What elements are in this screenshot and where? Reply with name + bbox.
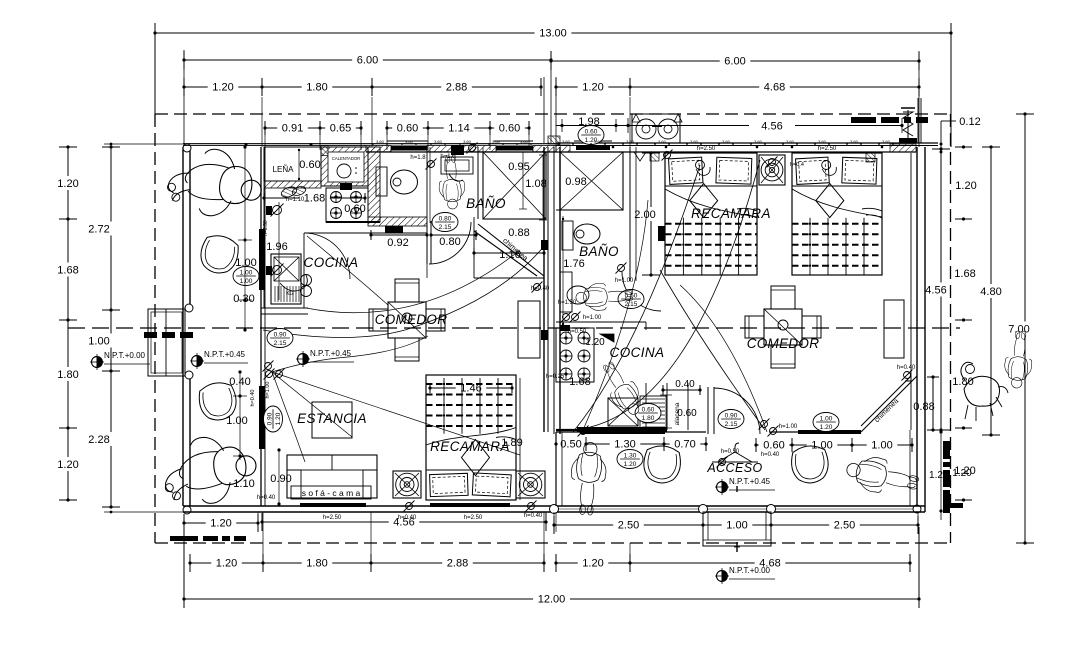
svg-text:RECAMARA: RECAMARA xyxy=(691,206,771,221)
svg-text:0.80: 0.80 xyxy=(439,216,452,223)
extension lines bottom xyxy=(190,512,630,570)
svg-text:3.60: 3.60 xyxy=(658,139,667,144)
dim 1.89 bed xyxy=(501,378,522,500)
svg-text:1.08: 1.08 xyxy=(525,178,546,190)
bed right unit 2 xyxy=(792,153,882,275)
dim row 1.20 1.80 2.88 top xyxy=(182,78,542,96)
svg-text:3.60: 3.60 xyxy=(722,139,731,144)
leader curve right unit 2 xyxy=(660,270,765,430)
bottom wall right porch xyxy=(554,506,925,512)
tocador right unit xyxy=(884,300,904,358)
svg-text:1.00: 1.00 xyxy=(226,415,247,427)
svg-text:1.20: 1.20 xyxy=(212,82,233,94)
leader curve right unit 4 xyxy=(583,200,648,430)
kitchen sink left unit xyxy=(262,185,366,304)
svg-text:0.60: 0.60 xyxy=(642,407,655,414)
svg-text:1.80: 1.80 xyxy=(57,369,78,381)
svg-text:3.60: 3.60 xyxy=(850,139,859,144)
porch side walls xyxy=(556,430,910,506)
svg-text:CALENTADOR: CALENTADOR xyxy=(332,156,360,161)
column left mid2 xyxy=(185,371,193,379)
label sofa-cama xyxy=(291,486,371,499)
svg-text:0.60: 0.60 xyxy=(499,123,520,135)
column left mid1 xyxy=(185,304,193,312)
outlet symbols xyxy=(263,143,913,512)
svg-text:6.00: 6.00 xyxy=(357,55,378,67)
wall toilet-sink xyxy=(427,147,430,223)
window band top left unit 1 xyxy=(387,141,428,151)
svg-text:2.50: 2.50 xyxy=(618,520,639,532)
column bottom-left xyxy=(183,506,191,514)
counter front band xyxy=(278,202,280,300)
svg-text:LEÑA: LEÑA xyxy=(273,165,295,174)
svg-text:1.20: 1.20 xyxy=(57,178,78,190)
npt +0.00 bottom xyxy=(715,566,775,584)
washing machine xyxy=(632,114,682,143)
counter right kitchen xyxy=(556,427,667,432)
toilet right unit xyxy=(562,162,804,250)
svg-text:3.60: 3.60 xyxy=(520,139,529,144)
party wall top ticks xyxy=(544,51,556,143)
door arc bath right xyxy=(622,226,665,311)
sofa-cama body xyxy=(287,455,377,498)
svg-text:1.14: 1.14 xyxy=(448,123,469,135)
dim 0.40 right kitchen xyxy=(661,385,701,395)
porch top wall left xyxy=(556,430,706,434)
entry step dashes xyxy=(144,332,193,338)
svg-text:3.60: 3.60 xyxy=(754,139,763,144)
svg-text:1.00: 1.00 xyxy=(811,440,832,452)
svg-text:2.15: 2.15 xyxy=(625,301,638,308)
svg-text:3.60: 3.60 xyxy=(690,139,699,144)
door entry right unit xyxy=(708,387,760,434)
svg-text:0.92: 0.92 xyxy=(387,237,408,249)
entry steps left xyxy=(148,309,185,376)
dim row 1.20 4.68 top xyxy=(554,78,920,96)
black dash band top right xyxy=(851,117,928,123)
svg-text:1.96: 1.96 xyxy=(266,241,287,253)
svg-text:1.20: 1.20 xyxy=(582,558,603,570)
svg-text:h=1.00: h=1.00 xyxy=(265,382,271,399)
label COCINA left xyxy=(304,255,359,270)
wall left exterior xyxy=(183,147,190,506)
dining table right unit xyxy=(745,286,821,368)
svg-text:h=0.50: h=0.50 xyxy=(721,449,740,455)
svg-text:COCINA: COCINA xyxy=(610,345,665,360)
svg-text:1.20: 1.20 xyxy=(210,518,231,530)
bath wall right unit xyxy=(630,147,636,281)
dim 0.92 bath door xyxy=(369,145,464,240)
svg-text:N.P.T.+0.45: N.P.T.+0.45 xyxy=(204,350,246,359)
svg-text:h=1.00: h=1.00 xyxy=(615,278,634,284)
svg-text:2.50: 2.50 xyxy=(834,520,855,532)
wall lena box xyxy=(263,147,321,236)
column top-left xyxy=(183,144,191,152)
wall top right unit xyxy=(556,141,938,152)
dining table left unit xyxy=(369,279,445,361)
dim patio vertical lower xyxy=(233,370,281,505)
dim 0.95 shower left xyxy=(519,152,527,209)
svg-text:h=2.50: h=2.50 xyxy=(697,146,716,152)
svg-text:12.00: 12.00 xyxy=(538,594,566,606)
section marker bottom right xyxy=(939,427,963,520)
svg-text:h=0.40: h=0.40 xyxy=(897,365,916,371)
svg-text:4.80: 4.80 xyxy=(980,286,1001,298)
svg-text:1.80: 1.80 xyxy=(642,415,655,422)
calentador nook xyxy=(321,147,368,186)
svg-text:h=1.00: h=1.00 xyxy=(583,315,602,321)
leader curve left unit 2 xyxy=(272,372,520,462)
svg-text:1.20: 1.20 xyxy=(820,424,833,431)
service yard line xyxy=(556,116,904,133)
estancia table xyxy=(312,402,352,438)
dim 6.00 top right xyxy=(549,51,920,147)
dim 1.46 bed xyxy=(428,383,513,395)
svg-text:0.60: 0.60 xyxy=(585,129,598,136)
svg-text:0.88: 0.88 xyxy=(508,227,529,239)
dim 1.76 right bath xyxy=(562,152,875,325)
svg-text:3.60: 3.60 xyxy=(562,139,571,144)
svg-text:1.00: 1.00 xyxy=(240,270,253,277)
svg-text:N.P.T.+0.45: N.P.T.+0.45 xyxy=(310,349,352,358)
svg-text:h=0.40: h=0.40 xyxy=(398,515,417,521)
porch top wall right xyxy=(770,430,861,434)
dim overall 13.00 top xyxy=(153,23,952,147)
door arc bath left xyxy=(429,222,471,264)
party wall xyxy=(544,147,560,434)
svg-text:13.00: 13.00 xyxy=(539,28,567,40)
dim right 4.80 xyxy=(980,145,1001,436)
dim bottom 1.20 left xyxy=(182,514,259,532)
property line dashed top xyxy=(155,113,951,115)
svg-text:0.90: 0.90 xyxy=(274,332,287,339)
svg-text:1.80: 1.80 xyxy=(306,82,327,94)
nightstand with fan xyxy=(759,155,785,185)
svg-text:h=2.50: h=2.50 xyxy=(818,146,837,152)
svg-text:2.72: 2.72 xyxy=(88,224,109,236)
svg-text:3.60: 3.60 xyxy=(786,139,795,144)
svg-text:0.95: 0.95 xyxy=(508,161,529,173)
svg-text:1.46: 1.46 xyxy=(460,383,481,395)
grill right kitchen xyxy=(640,396,667,428)
svg-text:3.60: 3.60 xyxy=(594,139,603,144)
stove right unit xyxy=(556,325,614,382)
shower right unit xyxy=(556,152,623,210)
svg-text:1.20: 1.20 xyxy=(275,412,282,425)
fan box left 1 xyxy=(393,471,421,498)
svg-text:h=0.40: h=0.40 xyxy=(257,495,276,501)
dim porch 0.60 1.00 1.00 xyxy=(754,438,913,452)
person patio bottom xyxy=(159,431,260,510)
dim left inner 2.72 1.00 2.28 xyxy=(88,145,120,508)
svg-text:1.20: 1.20 xyxy=(955,180,976,192)
interior small dims xyxy=(226,159,697,490)
svg-text:2.00: 2.00 xyxy=(634,209,655,221)
dim porch 0.50 1.30 0.70 xyxy=(554,437,707,451)
svg-text:1.76: 1.76 xyxy=(563,258,584,270)
porch dim ext xyxy=(554,512,918,532)
svg-text:h=0.40: h=0.40 xyxy=(524,513,543,519)
svg-text:0.90: 0.90 xyxy=(270,473,291,485)
chimenea left unit xyxy=(427,217,544,278)
svg-text:3.60: 3.60 xyxy=(405,139,414,144)
dim right 1.20 1.68 1.80 1.20 xyxy=(952,145,976,501)
alacena wall xyxy=(646,383,688,430)
svg-text:1.20: 1.20 xyxy=(582,82,603,94)
chimenea corner xyxy=(861,376,917,432)
dim 0.80 bath door xyxy=(429,230,477,240)
svg-text:1.30: 1.30 xyxy=(614,439,635,451)
wall top left unit cap xyxy=(366,144,556,152)
leader curve left unit 4 xyxy=(306,250,520,313)
svg-text:0.50: 0.50 xyxy=(560,439,581,451)
dim 0.60 right kitchen xyxy=(660,395,672,428)
svg-text:2.15: 2.15 xyxy=(439,224,452,231)
svg-text:2.88: 2.88 xyxy=(446,82,467,94)
column bottom right wall xyxy=(913,98,921,513)
svg-text:N.P.T.+0.45: N.P.T.+0.45 xyxy=(729,477,771,486)
door arc patio kitchen xyxy=(304,233,350,279)
svg-text:1.68: 1.68 xyxy=(304,193,325,205)
svg-text:3.60: 3.60 xyxy=(492,139,501,144)
svg-text:h=1.8: h=1.8 xyxy=(410,155,426,161)
dim 2.00 recamara xyxy=(634,151,660,276)
dim 6.00 top left xyxy=(182,50,552,147)
svg-text:BAÑO: BAÑO xyxy=(579,244,619,259)
property line dashed bottom xyxy=(155,542,951,544)
svg-text:2.15: 2.15 xyxy=(725,421,738,428)
svg-text:4.56: 4.56 xyxy=(761,121,782,133)
svg-text:h=0.25: h=0.25 xyxy=(546,374,565,380)
svg-text:COMEDOR: COMEDOR xyxy=(375,312,448,327)
svg-text:0.60: 0.60 xyxy=(677,408,697,419)
svg-text:h=0.50: h=0.50 xyxy=(568,329,587,335)
hatch mark party wall top xyxy=(548,136,560,144)
dim bottom 2.50 1.00 2.50 xyxy=(552,516,919,534)
leader curve left unit 3 xyxy=(307,236,388,305)
bottom wall left unit xyxy=(183,506,556,512)
svg-text:1.30: 1.30 xyxy=(624,453,637,460)
svg-text:3.60: 3.60 xyxy=(376,139,385,144)
dim 1.16 below bath xyxy=(472,248,545,258)
svg-text:0.12: 0.12 xyxy=(959,116,980,128)
dim bottom 1.20 4.68 right xyxy=(554,554,911,572)
svg-text:1.68: 1.68 xyxy=(954,268,975,280)
person bath right sink xyxy=(575,282,633,311)
leader curve right unit 3 xyxy=(680,285,767,432)
label RECAMARA left xyxy=(430,439,510,454)
dog outside right xyxy=(961,362,1008,421)
svg-text:h=1.50: h=1.50 xyxy=(558,300,577,306)
leader curve right unit big xyxy=(573,160,760,430)
equipal chair 1 xyxy=(197,232,242,277)
svg-text:4.68: 4.68 xyxy=(764,82,785,94)
dim bottom 12.00 xyxy=(182,523,920,608)
npt +0.45 estancia xyxy=(296,349,354,367)
svg-text:0.65: 0.65 xyxy=(330,123,351,135)
sliding door patio 1 xyxy=(259,229,265,290)
hanger acceso xyxy=(712,443,758,462)
leader curve left unit 5 xyxy=(272,336,428,372)
wall hatch below lena xyxy=(264,181,321,188)
label ESTANCIA xyxy=(297,411,367,426)
dim row 0.91 0.65 top xyxy=(263,121,362,135)
dim right 4.56 vertical xyxy=(925,147,950,431)
svg-text:1.68: 1.68 xyxy=(57,265,78,277)
svg-text:6.00: 6.00 xyxy=(724,56,745,68)
wall right exterior xyxy=(911,147,925,512)
boiler symbol xyxy=(899,108,917,143)
kitchen wall right unit xyxy=(556,322,646,330)
svg-text:COCINA: COCINA xyxy=(304,255,359,270)
centerline dashed horizontal xyxy=(68,327,960,329)
svg-text:h=2.50: h=2.50 xyxy=(323,515,342,521)
shower left unit xyxy=(478,147,546,219)
sliding door patio 2 xyxy=(259,386,265,449)
person outside right xyxy=(1003,330,1035,389)
sink right kitchen xyxy=(608,398,638,426)
svg-text:0.40: 0.40 xyxy=(675,379,695,390)
svg-text:1.00: 1.00 xyxy=(871,440,892,452)
fan box left 2 xyxy=(516,471,545,498)
person porch left xyxy=(569,441,608,516)
dim right 1.2 porch xyxy=(929,468,972,481)
svg-text:3.60: 3.60 xyxy=(818,139,827,144)
label BANO right xyxy=(579,244,619,259)
svg-text:3.60: 3.60 xyxy=(463,139,472,144)
svg-text:N.P.T.+0.00: N.P.T.+0.00 xyxy=(729,566,771,575)
door jamb marks party wall xyxy=(541,240,548,340)
door-window oval tags xyxy=(233,126,839,469)
dim bottom 4.56 left xyxy=(260,513,547,531)
entry step dash band bottom xyxy=(170,536,246,541)
svg-text:1.00: 1.00 xyxy=(88,336,109,348)
bed right unit 1 xyxy=(665,153,757,275)
svg-text:0.60: 0.60 xyxy=(344,203,365,215)
svg-text:1.20: 1.20 xyxy=(952,468,972,479)
svg-text:h=1.00: h=1.00 xyxy=(779,424,798,430)
svg-text:0.98: 0.98 xyxy=(565,176,586,188)
svg-text:1.20: 1.20 xyxy=(624,461,637,468)
svg-text:3.60: 3.60 xyxy=(434,139,443,144)
svg-text:BAÑO: BAÑO xyxy=(466,196,506,211)
sink right bath xyxy=(560,272,589,312)
wall kitchen-bath vertical xyxy=(368,147,380,222)
svg-text:2.15: 2.15 xyxy=(274,340,287,347)
svg-text:1.10: 1.10 xyxy=(233,478,254,490)
svg-text:h=0.40: h=0.40 xyxy=(250,390,256,407)
extension left wall lines xyxy=(104,143,183,514)
npt +0.45 left wall xyxy=(190,350,248,369)
svg-text:4.56: 4.56 xyxy=(925,285,946,297)
label COCINA right xyxy=(610,345,665,360)
svg-text:1.00: 1.00 xyxy=(726,520,747,532)
person kitchen right xyxy=(595,357,648,421)
dim 1.08 shower left xyxy=(539,155,547,220)
npt +0.45 acceso xyxy=(715,477,775,495)
sink left bath xyxy=(441,157,473,181)
svg-text:COMEDOR: COMEDOR xyxy=(747,336,820,351)
person bath left sink xyxy=(438,155,465,210)
dim patio vertical xyxy=(238,145,252,331)
svg-text:ACCESO: ACCESO xyxy=(706,461,762,475)
svg-text:2.88: 2.88 xyxy=(447,558,468,570)
label BANO left xyxy=(466,196,506,211)
svg-text:2.28: 2.28 xyxy=(88,434,109,446)
property line dashed left xyxy=(154,114,156,543)
svg-text:s o f á - c a m a: s o f á - c a m a xyxy=(302,488,361,498)
bed left unit xyxy=(426,375,516,500)
window sill marks left bottom xyxy=(300,503,510,507)
svg-text:1.20: 1.20 xyxy=(57,459,78,471)
dim right 0.88 chimenea xyxy=(913,375,939,431)
label RECAMARA right xyxy=(691,206,771,221)
svg-text:1.20: 1.20 xyxy=(216,558,237,570)
dim right 7.00 xyxy=(1008,112,1034,544)
svg-text:3.60: 3.60 xyxy=(882,139,891,144)
svg-text:0.90: 0.90 xyxy=(267,412,274,425)
svg-text:0.70: 0.70 xyxy=(674,439,695,451)
svg-text:h=1.10: h=1.10 xyxy=(286,197,305,203)
wall patio separation xyxy=(261,147,265,506)
tiny h labels xyxy=(257,146,916,521)
svg-text:RECAMARA: RECAMARA xyxy=(430,439,510,454)
property line dashed right xyxy=(950,114,952,543)
stove left unit xyxy=(326,183,368,222)
wall below stove hatch xyxy=(326,221,380,223)
toilet left unit xyxy=(376,167,418,196)
wall top thin left section xyxy=(183,143,366,156)
svg-text:0.60: 0.60 xyxy=(763,440,784,452)
svg-text:ESTANCIA: ESTANCIA xyxy=(297,411,367,426)
svg-text:0.80: 0.80 xyxy=(439,236,460,248)
svg-text:7.00: 7.00 xyxy=(1008,324,1029,336)
window band top left unit 2 xyxy=(494,141,533,151)
svg-text:1.80: 1.80 xyxy=(306,558,327,570)
bath wall horizontal left xyxy=(368,217,431,264)
svg-text:1.20: 1.20 xyxy=(585,337,605,348)
svg-text:h=0.40: h=0.40 xyxy=(761,452,780,458)
kitchen counter edge xyxy=(261,188,427,314)
svg-text:3.60: 3.60 xyxy=(626,139,635,144)
npt +0.00 left xyxy=(90,351,150,370)
svg-text:0.60: 0.60 xyxy=(299,159,320,171)
svg-text:h=2.50: h=2.50 xyxy=(464,515,483,521)
leader curve left unit 1 xyxy=(263,245,545,338)
svg-text:0.60: 0.60 xyxy=(397,123,418,135)
acceso step xyxy=(703,486,771,552)
svg-text:1.68: 1.68 xyxy=(569,376,590,388)
svg-text:0.91: 0.91 xyxy=(282,123,303,135)
person porch right xyxy=(843,452,921,501)
label COMEDOR right xyxy=(747,336,820,351)
svg-text:1.00: 1.00 xyxy=(240,278,253,285)
wall top left unit hatched xyxy=(366,146,556,152)
dim row 0.60 1.14 0.60 top xyxy=(385,121,530,135)
extension lines top xyxy=(262,97,630,150)
porch chair 2 xyxy=(790,444,830,484)
porch columns xyxy=(550,505,776,514)
svg-text:1.00: 1.00 xyxy=(820,416,833,423)
label ACCESO xyxy=(706,461,762,475)
svg-text:1.89: 1.89 xyxy=(501,437,522,449)
svg-text:0.90: 0.90 xyxy=(725,413,738,420)
person patio top xyxy=(164,142,267,224)
equipal chair 2 xyxy=(197,380,239,423)
porch chair 1 xyxy=(642,444,682,484)
dim bottom row 1.20 1.80 2.88 xyxy=(188,554,545,572)
dim 0.12 top right xyxy=(940,116,981,154)
